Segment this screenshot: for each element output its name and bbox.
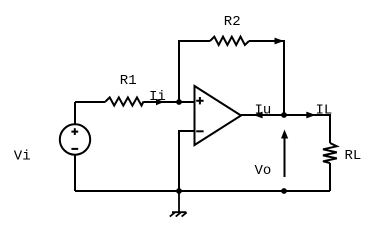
op-amp plus input symbol xyxy=(196,97,203,104)
svg-text:R2: R2 xyxy=(224,14,241,30)
wire: top horizontal from source to op-amp non-inverting input xyxy=(75,101,106,103)
current arrow on R2 wire head xyxy=(275,38,285,45)
current arrow Ii head xyxy=(156,99,164,106)
op-amp U1 xyxy=(195,86,242,145)
ground xyxy=(170,191,187,217)
wire: R1 to op-amp xyxy=(144,101,195,103)
resistor RL xyxy=(323,143,337,163)
wire: RL bottom to ground rail xyxy=(329,163,331,191)
wire: source top lead xyxy=(74,102,76,124)
svg-text:Vi: Vi xyxy=(14,149,31,165)
wire: R2 right to output node corner xyxy=(249,41,284,115)
node: junction dot ground rail under Vo xyxy=(281,188,287,194)
current arrow IL head xyxy=(306,112,315,119)
op-amp minus input symbol xyxy=(196,130,203,132)
resistor R2 xyxy=(210,37,249,45)
wire: op-amp output to right corner into RL xyxy=(241,115,330,143)
current arrow Iu head (points left) xyxy=(253,112,262,119)
svg-text:Iu: Iu xyxy=(255,103,272,119)
wire: bottom ground rail xyxy=(75,190,330,192)
node: junction dot ground rail left xyxy=(176,188,182,194)
node A: junction dot at non-inverting input xyxy=(176,99,182,105)
resistor R1 xyxy=(106,97,144,105)
wire: feedback left vertical from node A up to R2 xyxy=(179,41,210,102)
voltage source plus symbol xyxy=(71,128,78,135)
svg-text:Vo: Vo xyxy=(255,163,272,179)
svg-text:IL: IL xyxy=(316,103,333,119)
wire: source bottom lead xyxy=(74,155,76,191)
voltage arrow Vo (up) xyxy=(284,136,286,177)
svg-text:R1: R1 xyxy=(120,73,137,89)
svg-text:Ii: Ii xyxy=(149,89,166,105)
voltage source Vi circle xyxy=(60,124,90,154)
node: junction dot at output / feedback xyxy=(281,112,287,118)
svg-text:RL: RL xyxy=(345,148,362,164)
voltage source minus symbol xyxy=(71,148,78,150)
wire: inverting input down to ground rail xyxy=(179,131,195,191)
